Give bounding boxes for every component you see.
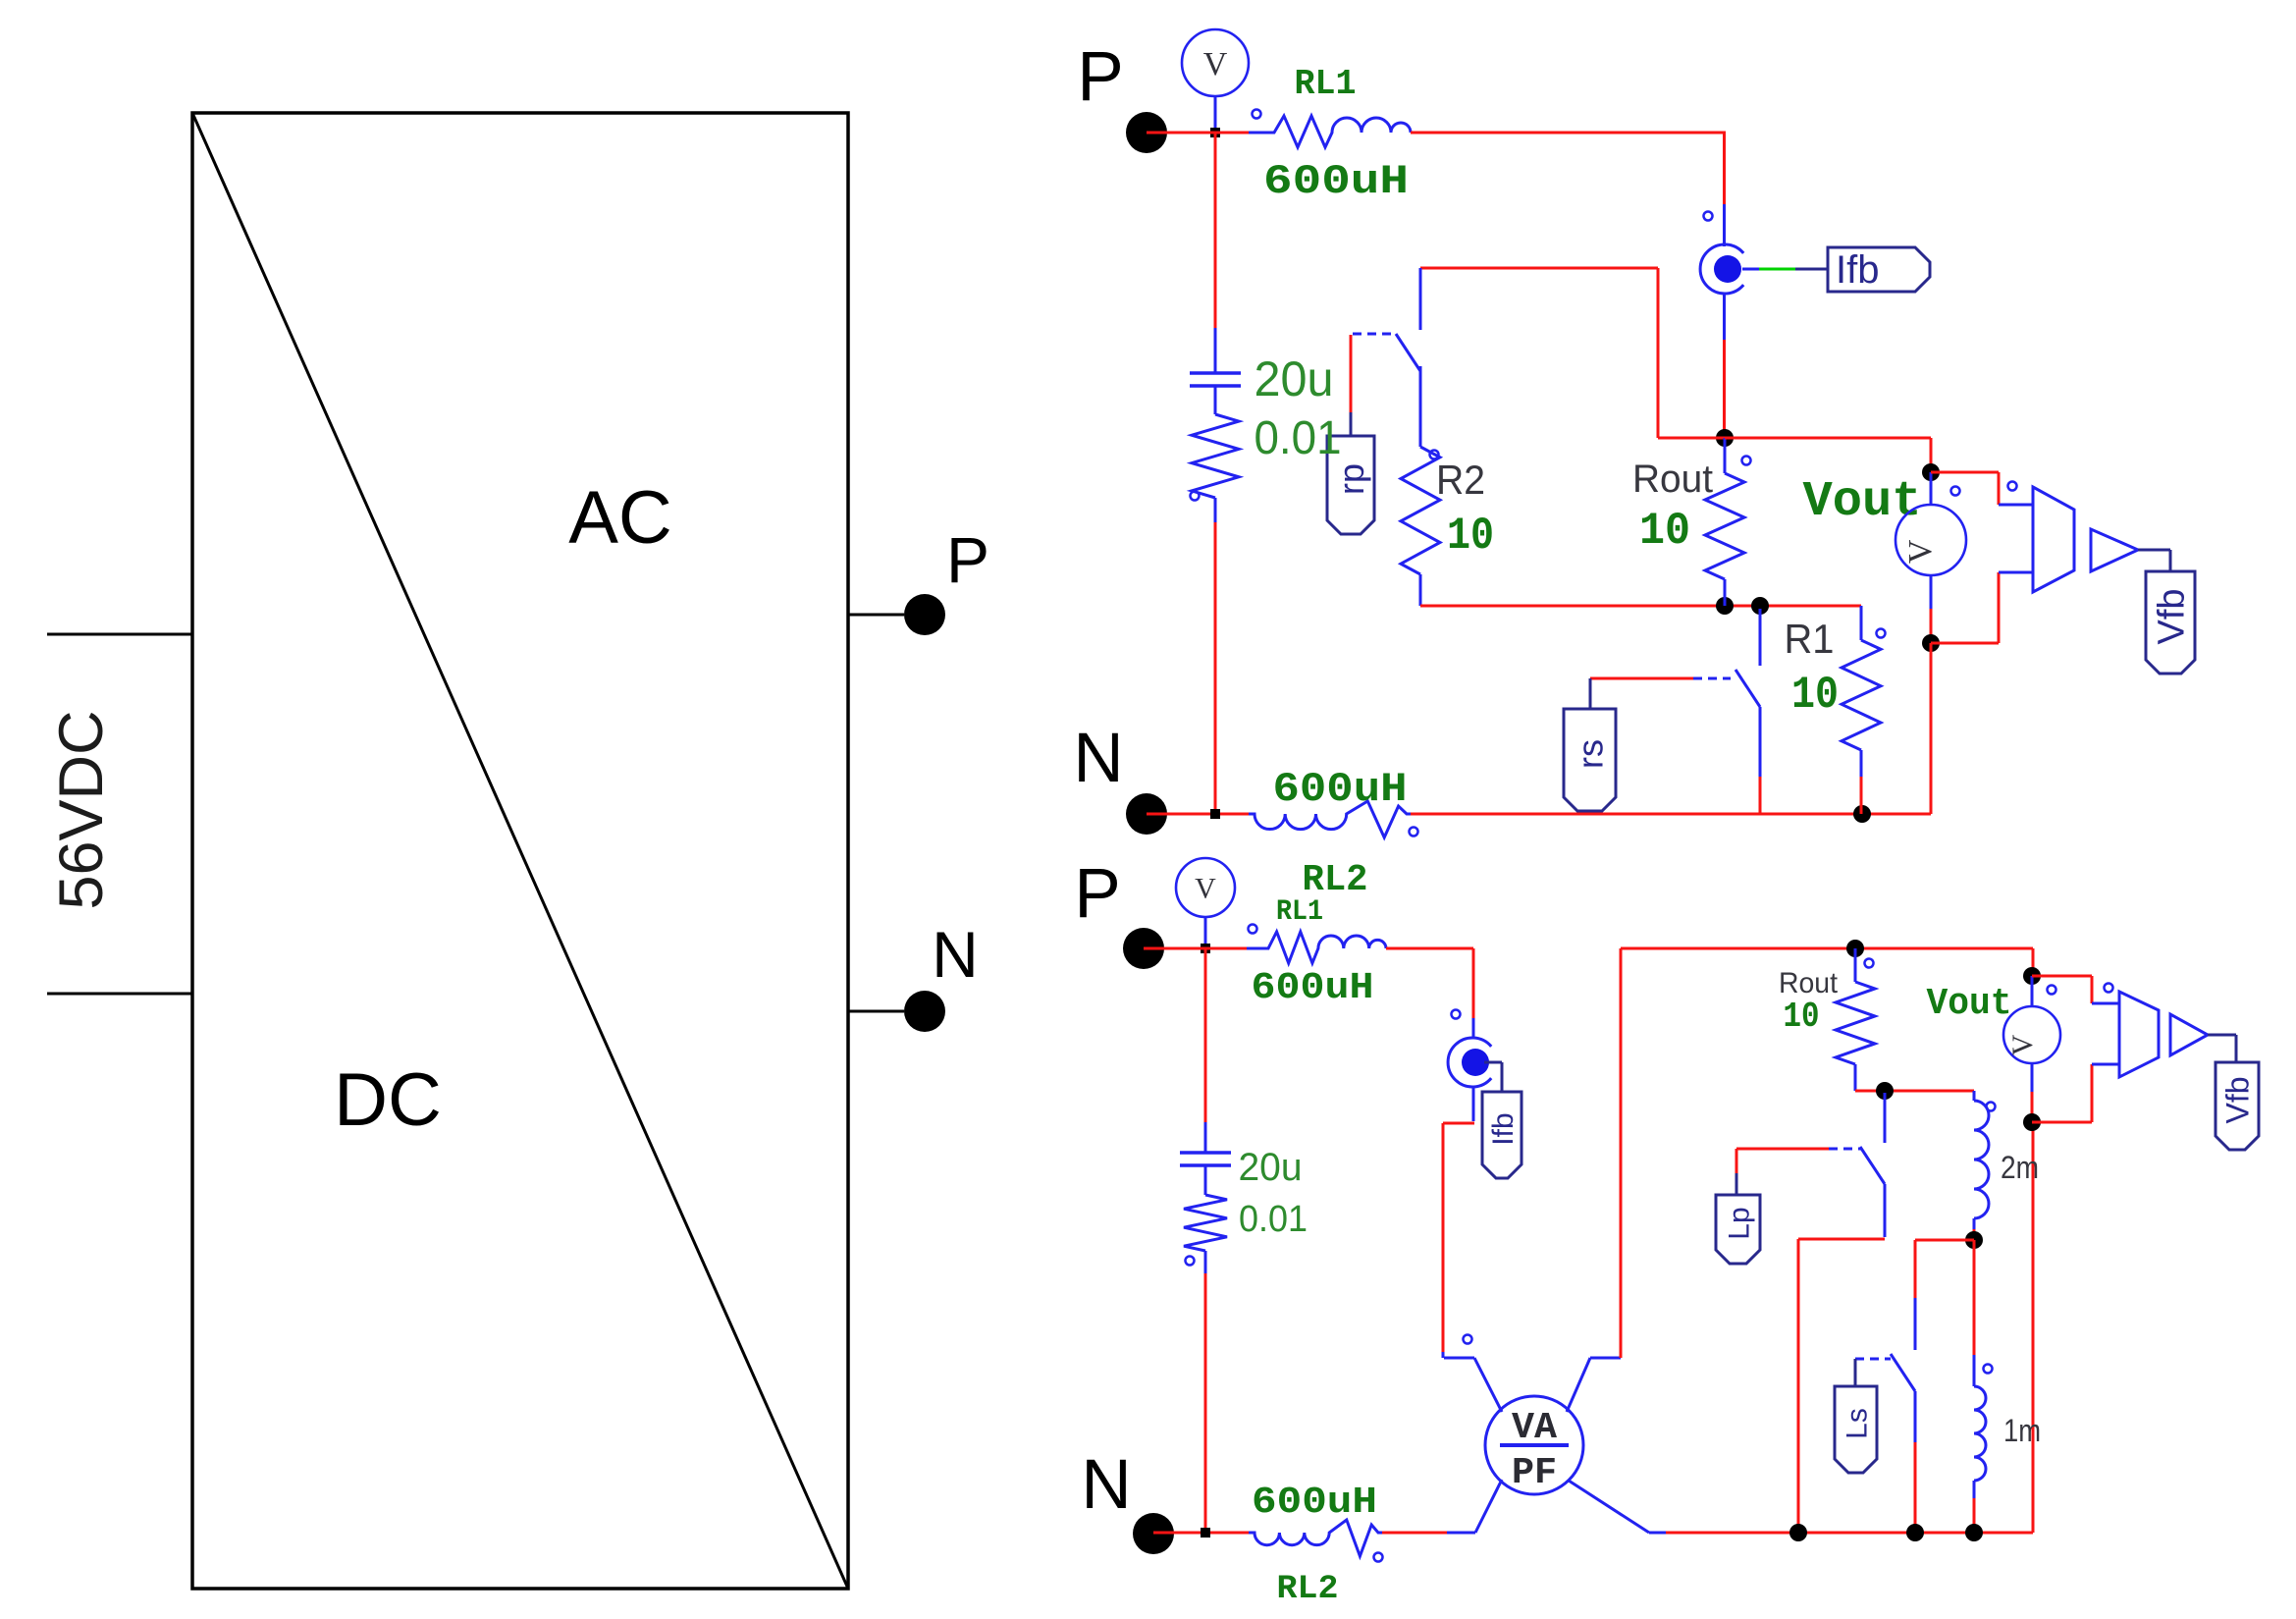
wire cap branch to N rail (bottom) bbox=[1204, 1273, 1207, 1533]
label 56VDC bbox=[47, 710, 116, 909]
switch S2 (rp controlled) bbox=[1353, 268, 1420, 371]
pin marker R2 bbox=[1430, 451, 1439, 459]
wire N rail bbox=[1411, 643, 1931, 814]
svg-text:600uH: 600uH bbox=[1252, 967, 1374, 1009]
pin marker cap branch bbox=[1191, 492, 1200, 501]
junction at V2 stem bbox=[1201, 944, 1210, 953]
svg-text:RL2: RL2 bbox=[1277, 1571, 1339, 1608]
wire RL1 to sensor (bottom) bbox=[1386, 948, 1473, 1018]
wire meter NE to top rail bbox=[1620, 948, 1623, 1358]
wire green to Ifb label bbox=[1742, 268, 1828, 271]
svg-text:V: V bbox=[1203, 46, 1228, 82]
terminal P of block bbox=[848, 523, 989, 635]
label Vfb (bottom) bbox=[2216, 1062, 2259, 1150]
inductor RL1 (top) 600uH bbox=[1249, 64, 1411, 205]
svg-text:P: P bbox=[946, 523, 989, 596]
svg-text:20u: 20u bbox=[1239, 1146, 1303, 1189]
svg-text:10: 10 bbox=[1791, 670, 1839, 721]
wire buffer to Vfb (bottom) bbox=[2208, 1035, 2236, 1062]
wire P to RL1 bbox=[1147, 132, 1249, 135]
svg-text:1m: 1m bbox=[2003, 1413, 2041, 1448]
wire sensor to meter NW bbox=[1443, 1123, 1474, 1358]
inductor RL2 (top) 600uH bbox=[1249, 766, 1411, 901]
voltage sensor V2 (bottom) bbox=[1176, 858, 1235, 946]
wire P to RL1 (bottom) bbox=[1144, 947, 1247, 950]
wire Lp switch to N rail bbox=[1798, 1239, 1885, 1533]
svg-text:DC: DC bbox=[334, 1058, 442, 1142]
pin marker mux (bottom) b bbox=[2105, 984, 2113, 993]
label rs bbox=[1564, 709, 1616, 811]
wire Vout bottom to mux (bottom) bbox=[2032, 1064, 2119, 1122]
junction cap branch N rail (bottom) bbox=[1201, 1528, 1210, 1538]
svg-text:Rout: Rout bbox=[1632, 458, 1713, 501]
wire Rout bottom node (bottom) bbox=[1855, 1090, 1974, 1093]
svg-text:56VDC: 56VDC bbox=[47, 710, 116, 909]
wire node A to Vout top bbox=[1725, 438, 1931, 469]
svg-text:Ifb: Ifb bbox=[1487, 1112, 1520, 1145]
wire Lp control lead bbox=[1736, 1149, 1811, 1195]
svg-text:Vout: Vout bbox=[1927, 983, 2012, 1025]
converter block U1 (AC/DC) bbox=[192, 113, 848, 1589]
resistor Rout 10 (top) bbox=[1632, 438, 1744, 606]
svg-text:2m: 2m bbox=[2001, 1150, 2039, 1185]
voltage sensor Vout (bottom) bbox=[2003, 976, 2060, 1118]
svg-text:rs: rs bbox=[1571, 739, 1611, 769]
pin marker 2m bbox=[1987, 1103, 1996, 1111]
label Ifb (bottom) bbox=[1482, 1092, 1522, 1178]
switch S3 (Lp controlled) bbox=[1811, 1093, 1885, 1237]
wire meter SE / N rail right bbox=[1666, 1126, 2033, 1533]
wire buffer to Vfb bbox=[2138, 550, 2170, 571]
svg-text:Ifb: Ifb bbox=[1836, 248, 1879, 292]
node N (top circuit) bbox=[1073, 720, 1167, 835]
label rp bbox=[1327, 436, 1374, 534]
svg-text:AC: AC bbox=[568, 476, 672, 560]
pin marker mux top bbox=[1951, 487, 1960, 496]
VA/PF meter W1 bbox=[1444, 1358, 1666, 1533]
svg-text:V: V bbox=[2006, 1034, 2039, 1055]
svg-text:600uH: 600uH bbox=[1263, 158, 1409, 205]
capacitor C1 20u (top) bbox=[1190, 351, 1334, 406]
label Vout (top) bbox=[1803, 474, 1922, 530]
inductor RL1 (bottom) 600uH bbox=[1247, 895, 1386, 1009]
resistor 0.01 (bottom) bbox=[1184, 1166, 1308, 1273]
junction Ls N rail bbox=[1906, 1524, 1924, 1541]
buffer U3 (top) bbox=[2091, 529, 2138, 571]
pin marker cap branch (bottom) bbox=[1186, 1257, 1195, 1266]
junction cap branch N rail bbox=[1210, 809, 1220, 819]
junction Vout top (bottom ckt) bbox=[2023, 948, 2041, 985]
wire RL2 to meter SW bbox=[1382, 1532, 1447, 1535]
mux U4 (bottom) bbox=[2119, 992, 2159, 1077]
junction Vout top (top ckt) bbox=[1922, 463, 1940, 481]
svg-text:P: P bbox=[1074, 855, 1120, 933]
node P (top circuit) bbox=[1077, 38, 1167, 153]
wire Ls control lead bbox=[1854, 1359, 1857, 1386]
svg-text:20u: 20u bbox=[1255, 351, 1334, 406]
junction R1 bottom bbox=[1853, 805, 1871, 823]
pin marker mux (bottom) a bbox=[2048, 986, 2056, 995]
svg-text:N: N bbox=[932, 918, 979, 991]
buffer U5 (bottom) bbox=[2170, 1014, 2208, 1055]
junction 1m N rail bbox=[1965, 1524, 1983, 1541]
wire 2m to Ls switch bbox=[1915, 1240, 1974, 1300]
svg-text:0.01: 0.01 bbox=[1255, 412, 1342, 464]
pin marker RL1 left bbox=[1253, 110, 1261, 119]
inductor 2m bbox=[1974, 1091, 2039, 1240]
resistor R1 10 bbox=[1785, 606, 1882, 814]
pin marker Rout (bottom) bbox=[1865, 959, 1874, 968]
node A junction bbox=[1716, 429, 1734, 447]
svg-text:V: V bbox=[1902, 539, 1939, 564]
wire loop node A to R2 switch bbox=[1420, 268, 1725, 438]
svg-text:10: 10 bbox=[1447, 511, 1494, 562]
svg-text:N: N bbox=[1073, 720, 1123, 797]
inductor 1m bbox=[1974, 1240, 2041, 1533]
wire 56VDC positive lead bbox=[47, 633, 192, 636]
svg-text:rp: rp bbox=[1331, 463, 1371, 495]
switch S1 (rs controlled) bbox=[1693, 609, 1760, 814]
wire 56VDC negative lead bbox=[47, 993, 192, 996]
wire N to RL2 bbox=[1147, 813, 1249, 816]
inductor RL2 (bottom) 600uH bbox=[1249, 1482, 1382, 1608]
resistor Rout 10 (bottom) bbox=[1779, 948, 1875, 1091]
svg-text:N: N bbox=[1081, 1446, 1131, 1524]
wire cap branch to N rail bbox=[1214, 522, 1217, 814]
resistor 0.01 (top) bbox=[1192, 387, 1342, 522]
svg-text:10: 10 bbox=[1639, 506, 1690, 557]
svg-text:Lp: Lp bbox=[1723, 1207, 1755, 1239]
junction Rout bottom bbox=[1716, 597, 1734, 615]
label Vfb (top) bbox=[2146, 571, 2195, 674]
svg-text:P: P bbox=[1077, 38, 1123, 116]
capacitor C2 20u (bottom) bbox=[1180, 1146, 1303, 1189]
pin marker mux input bbox=[2008, 482, 2017, 491]
junction 2m bottom bbox=[1965, 1231, 1983, 1249]
svg-text:Ls: Ls bbox=[1841, 1408, 1873, 1439]
svg-text:R1: R1 bbox=[1785, 616, 1835, 662]
wire Vout top to mux (bottom) bbox=[2032, 976, 2119, 1003]
wire sensor to node A bbox=[1723, 340, 1726, 434]
pin marker Rout bbox=[1742, 457, 1751, 465]
svg-text:10: 10 bbox=[1784, 997, 1820, 1037]
pin marker sensor (bottom) bbox=[1452, 1010, 1461, 1019]
wire rp control lead bbox=[1350, 335, 1353, 436]
wire cap branch top (bottom ckt) bbox=[1204, 948, 1207, 1152]
svg-text:600uH: 600uH bbox=[1252, 1482, 1377, 1524]
svg-text:Vfb: Vfb bbox=[2220, 1076, 2256, 1123]
pin marker R1 bbox=[1877, 629, 1886, 638]
svg-text:Vout: Vout bbox=[1803, 474, 1922, 530]
pin marker RL1 left (bottom) bbox=[1249, 925, 1257, 934]
junction Lp N rail bbox=[1789, 1524, 1807, 1541]
junction Rout top (bottom) bbox=[1846, 940, 1864, 957]
label Lp bbox=[1716, 1195, 1760, 1264]
wire Vout bottom to mux bbox=[1931, 572, 2033, 643]
voltage sensor V1 (top) bbox=[1182, 29, 1249, 131]
svg-text:RL1: RL1 bbox=[1295, 64, 1357, 104]
wire to Ifb label (bottom) bbox=[1484, 1062, 1502, 1092]
pin marker 1m bbox=[1984, 1365, 1993, 1374]
current sensor Ifb (top) bbox=[1700, 204, 1743, 340]
wire RL1 to sensor corner bbox=[1411, 133, 1726, 204]
svg-text:VA: VA bbox=[1512, 1407, 1557, 1449]
wire R2 bottom rail bbox=[1420, 605, 1861, 608]
svg-text:PF: PF bbox=[1512, 1452, 1557, 1494]
label Vout (bottom) bbox=[1927, 983, 2012, 1025]
svg-text:V: V bbox=[1195, 873, 1216, 905]
mux U2 (top) bbox=[2033, 487, 2074, 592]
pin marker Ifb sensor bbox=[1704, 212, 1713, 221]
node N (bottom circuit) bbox=[1081, 1446, 1174, 1554]
wire rs control lead bbox=[1590, 678, 1693, 709]
terminal N of block bbox=[848, 918, 979, 1032]
svg-text:Rout: Rout bbox=[1779, 967, 1839, 999]
label DC bbox=[334, 1058, 442, 1142]
resistor R2 10 bbox=[1401, 366, 1494, 606]
label AC bbox=[568, 476, 672, 560]
wire N rail left (bottom) bbox=[1153, 1532, 1249, 1535]
label Ls bbox=[1835, 1386, 1877, 1473]
svg-text:600uH: 600uH bbox=[1273, 766, 1408, 813]
wire top rail right (bottom ckt) bbox=[1621, 947, 2033, 950]
svg-text:0.01: 0.01 bbox=[1239, 1199, 1308, 1240]
wire Vout top to mux bbox=[1931, 472, 2033, 505]
switch S4 (Ls controlled) bbox=[1855, 1298, 1915, 1533]
label Ifb (top) bbox=[1828, 247, 1930, 292]
svg-text:RL1: RL1 bbox=[1276, 895, 1323, 929]
pin marker meter NW bbox=[1464, 1335, 1472, 1344]
junction Vout bottom (top ckt) bbox=[1922, 634, 1940, 652]
voltage sensor Vout (top) bbox=[1896, 472, 1966, 639]
wire cap branch top (top ckt) bbox=[1214, 133, 1217, 372]
svg-text:Vfb: Vfb bbox=[2152, 588, 2193, 644]
junction at V1 stem bbox=[1210, 128, 1220, 137]
junction Lp switch top bbox=[1876, 1082, 1894, 1100]
junction rs switch top bbox=[1751, 597, 1769, 615]
svg-text:R2: R2 bbox=[1436, 457, 1485, 503]
junction Vout bottom (bottom ckt) bbox=[2023, 1113, 2041, 1131]
current sensor Ifb (bottom) bbox=[1448, 1018, 1491, 1121]
node P (bottom circuit) bbox=[1074, 855, 1164, 969]
pin marker RL2 (bottom) bbox=[1374, 1553, 1383, 1562]
pin marker RL2 right bbox=[1410, 828, 1418, 836]
